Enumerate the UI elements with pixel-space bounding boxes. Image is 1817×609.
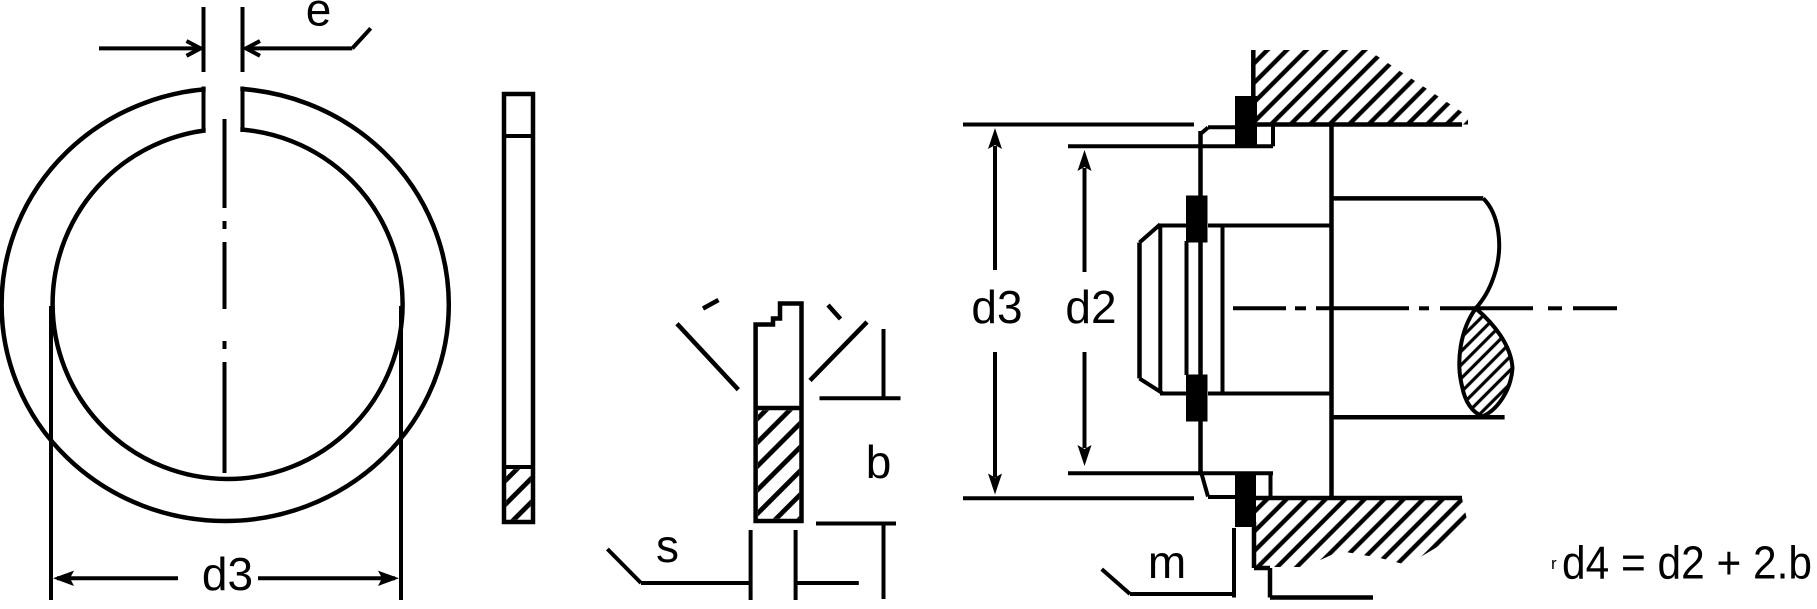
component left face xyxy=(1198,131,1203,473)
d2 extension bottom xyxy=(1068,471,1273,475)
section bar outline with stepped break xyxy=(756,304,802,522)
d3 extension line left xyxy=(49,306,53,600)
ring section inner bottom xyxy=(1186,375,1208,422)
d3 extension top xyxy=(963,123,1194,127)
groove wall inner xyxy=(1185,241,1189,375)
b extension line bottom xyxy=(816,522,896,526)
head left edge xyxy=(1137,243,1142,379)
svg-text:m: m xyxy=(1148,536,1186,588)
b dimension line xyxy=(882,329,886,398)
head chamfer top xyxy=(1140,224,1161,242)
hub top line xyxy=(1160,224,1186,228)
section boundary line xyxy=(504,465,533,469)
e dimension arrow right + leader xyxy=(246,46,352,50)
ring outer contour xyxy=(2,88,449,521)
housing hatch bottom xyxy=(1254,498,1469,567)
svg-text:d4 = d2 + 2.b: d4 = d2 + 2.b xyxy=(1562,537,1812,589)
m extension line xyxy=(1232,528,1236,598)
housing face top xyxy=(1251,50,1256,96)
svg-text:b: b xyxy=(866,436,892,488)
head silhouette line xyxy=(1158,224,1162,393)
ring section inner top xyxy=(1186,196,1208,243)
bore line bottom xyxy=(1254,496,1462,501)
gap cut edge left xyxy=(202,87,206,133)
hub bottom line xyxy=(1160,392,1186,396)
component bottom surface xyxy=(1208,495,1237,499)
hub right wall xyxy=(1221,226,1225,394)
d2 dimension line xyxy=(1083,168,1087,272)
centre line horizontal xyxy=(1233,306,1286,310)
d3 dimension line xyxy=(57,576,178,580)
component top surface xyxy=(1208,125,1237,129)
groove wall top xyxy=(1271,125,1275,147)
pointer line right long xyxy=(810,322,867,381)
svg-text:e: e xyxy=(306,0,332,36)
side view outline xyxy=(504,94,533,522)
e dimension arrow left xyxy=(99,46,199,50)
component right face xyxy=(1329,125,1334,499)
gap cut edge right xyxy=(241,87,245,133)
bore line top xyxy=(1254,122,1462,127)
s leader xyxy=(607,549,641,583)
pointer dash left xyxy=(703,300,719,309)
gap split line xyxy=(504,134,533,138)
section hatch xyxy=(506,469,531,520)
m leader xyxy=(1102,569,1130,594)
shaft break curve xyxy=(1476,198,1499,308)
e extension line left xyxy=(202,7,206,72)
centre line vertical xyxy=(223,119,227,208)
pointer line left long xyxy=(677,324,738,390)
s dimension line xyxy=(641,581,751,585)
b extension line top xyxy=(820,396,901,400)
housing hatch top xyxy=(1253,50,1468,125)
svg-text:d2: d2 xyxy=(1065,281,1116,333)
svg-text:d3: d3 xyxy=(202,548,253,600)
gap blank xyxy=(206,80,241,136)
shaft break lens xyxy=(1459,308,1512,416)
d3 dimension line xyxy=(993,146,997,270)
svg-text:s: s xyxy=(656,520,679,572)
s extension line left xyxy=(749,530,753,600)
housing face bottom stepped xyxy=(1252,522,1257,568)
d3 extension line right xyxy=(399,306,403,600)
section hatch xyxy=(758,410,799,518)
ring inner contour xyxy=(53,129,403,479)
d2 extension top xyxy=(1068,144,1273,148)
chamfer top xyxy=(1201,128,1209,135)
shaft bottom line xyxy=(1332,415,1505,420)
chamfer bottom xyxy=(1201,470,1209,497)
svg-text:d3: d3 xyxy=(971,281,1022,333)
ring section outer bottom xyxy=(1235,473,1256,527)
section boundary line xyxy=(756,406,802,411)
groove wall bottom xyxy=(1269,474,1273,500)
shaft top line xyxy=(1332,196,1484,201)
ring section outer top xyxy=(1235,96,1257,148)
e extension line right xyxy=(241,7,245,72)
head chamfer bottom xyxy=(1140,379,1163,393)
d3 extension bottom xyxy=(963,496,1194,500)
pointer dash right xyxy=(828,305,841,319)
svg-text:r: r xyxy=(1551,554,1557,573)
s extension line right xyxy=(794,530,798,600)
